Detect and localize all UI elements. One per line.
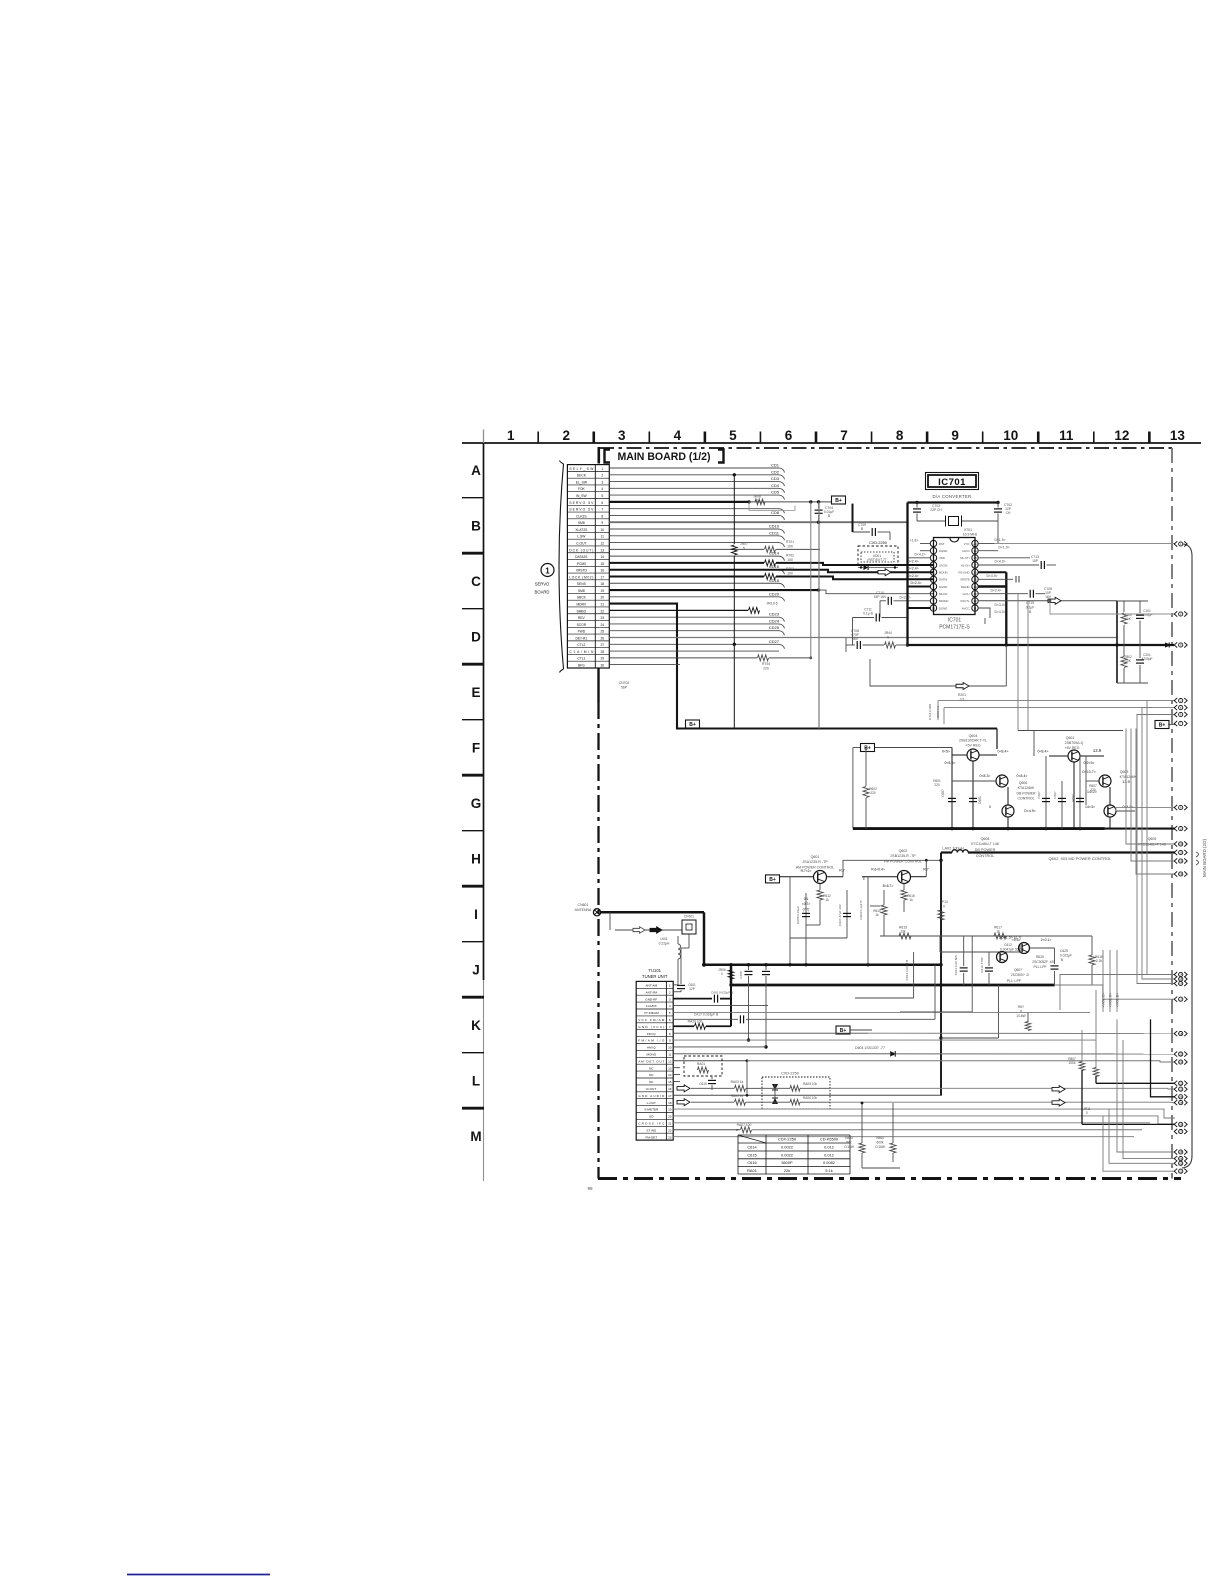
right connector bracket (1182, 544, 1192, 1168)
svg-text:D<2.4>: D<2.4> (907, 574, 918, 578)
svg-text:BFG: BFG (578, 664, 585, 668)
svg-text:2SC3052F -69: 2SC3052F -69 (1032, 960, 1054, 964)
svg-text:1k: 1k (875, 913, 879, 917)
svg-text:ST.IND: ST.IND (646, 1128, 657, 1132)
svg-text:0.0082: 0.0082 (823, 1160, 835, 1165)
svg-text:1: 1 (669, 984, 671, 988)
svg-text:12: 12 (973, 599, 977, 603)
frame top tick gray (483, 430, 485, 444)
svg-text:DB POWER: DB POWER (1016, 792, 1036, 796)
svg-text:13: 13 (973, 592, 977, 596)
bold antenna wire (601, 911, 705, 914)
svg-text:30: 30 (600, 664, 604, 668)
capacitor C601 (680, 948, 682, 984)
svg-text:R704: R704 (762, 662, 770, 666)
svg-text:22k: 22k (784, 1168, 790, 1173)
svg-text:1/16W: 1/16W (1016, 1014, 1026, 1018)
GND audio row17 (673, 1094, 941, 1096)
svg-text:21: 21 (668, 1122, 672, 1126)
connector pin 12 (1174, 858, 1187, 863)
svg-text:SBCK: SBCK (577, 596, 587, 600)
svg-text:C611 0.22 50V: C611 0.22 50V (954, 954, 958, 975)
capacitor C704 (818, 502, 820, 509)
loop wire below IC (870, 659, 1006, 686)
IC701 pin 15 (972, 576, 978, 582)
wire pin12 elbow (1131, 729, 1175, 862)
connector pin 4 (1174, 698, 1187, 703)
svg-text:L: L (472, 1074, 480, 1089)
svg-text:Q605: Q605 (1148, 837, 1157, 841)
column tick 4|5 (704, 432, 707, 444)
svg-text:FM IQ: FM IQ (647, 1032, 656, 1036)
svg-text:14: 14 (668, 1073, 672, 1077)
svg-text:PCM1717E-S: PCM1717E-S (939, 625, 970, 631)
wire CN pin 25 to CD25 (609, 630, 779, 632)
tuner pin wires (673, 984, 678, 986)
svg-text:C.OUT: C.OUT (576, 541, 586, 545)
row tick J|K (462, 996, 484, 999)
svg-text:CD27: CD27 (769, 639, 780, 644)
svg-text:JR07: JR07 (740, 542, 748, 546)
svg-text:6: 6 (785, 428, 793, 443)
svg-text:R201: R201 (958, 693, 966, 697)
svg-text:3: 3 (601, 480, 603, 484)
svg-text:8: 8 (601, 514, 603, 518)
svg-text:11: 11 (601, 535, 605, 539)
IC701 right pin wires (978, 543, 994, 545)
wire CN pin 13 DCK (609, 548, 764, 550)
svg-text:21: 21 (600, 603, 604, 607)
svg-text:BOARD: BOARD (535, 590, 550, 595)
svg-text:B<8.7>: B<8.7> (883, 884, 894, 888)
column tick 1|2 (537, 432, 539, 444)
main board 2/2 pointer (1196, 852, 1199, 865)
svg-text:LOCK (M02): LOCK (M02) (569, 575, 593, 579)
svg-text:CD3: CD3 (771, 476, 780, 481)
svg-text:220: 220 (934, 783, 940, 787)
svg-text:R-OUT: R-OUT (646, 1087, 656, 1091)
svg-text:JR44: JR44 (884, 631, 892, 635)
svg-text:16: 16 (600, 569, 604, 573)
column tick 7|8 (871, 432, 873, 444)
bold vertical x941 (940, 853, 942, 1096)
circled ref 1 (541, 564, 554, 577)
svg-text:5: 5 (601, 494, 603, 498)
resistor R615 (899, 933, 911, 939)
svg-text:CD20: CD20 (769, 591, 780, 596)
wire pin13 elbow (1136, 729, 1175, 875)
JR06 on bold vertical (730, 985, 732, 1026)
svg-text:L-OUT: L-OUT (647, 1101, 656, 1105)
svg-text:17: 17 (668, 1094, 672, 1098)
CROSS row21 (673, 1122, 1150, 1124)
svg-text:VT FM/AM: VT FM/AM (644, 1011, 659, 1015)
RC cluster right of IC (1116, 601, 1118, 683)
vertical net x734 (733, 475, 735, 544)
svg-text:RA03 1k: RA03 1k (731, 1080, 744, 1084)
IC701 pin 12 (972, 598, 978, 604)
svg-text:<1.8>: <1.8> (910, 539, 919, 543)
svg-text:JP14: JP14 (940, 900, 948, 904)
B+ J row (836, 1026, 850, 1034)
svg-text:12: 12 (600, 541, 604, 545)
transistor PLL Q1 (997, 952, 1008, 963)
B+ supply row6 (832, 496, 846, 504)
svg-text:FOK: FOK (578, 487, 586, 491)
svg-text:CH: CH (1006, 511, 1011, 515)
column tick 12|13 (1148, 432, 1151, 444)
board border left corner stub (597, 447, 600, 464)
svg-text:SCOR: SCOR (577, 623, 587, 627)
svg-text:D<1.9>: D<1.9> (998, 546, 1009, 550)
svg-text:G: G (471, 796, 482, 811)
wire CN pin 2 to CD2 (609, 474, 779, 476)
svg-text:S-METER: S-METER (644, 1108, 659, 1112)
svg-text:11: 11 (973, 606, 976, 610)
svg-text:19: 19 (668, 1108, 672, 1112)
svg-text:REV: REV (578, 616, 586, 620)
svg-text:C615: C615 (747, 1153, 756, 1158)
svg-text:2: 2 (563, 428, 571, 443)
svg-text:0.1: 0.1 (804, 897, 809, 901)
connector pin 18 (1174, 1031, 1187, 1036)
svg-text:SELF_SW: SELF_SW (569, 467, 594, 471)
svg-text:Q601: Q601 (1066, 736, 1075, 740)
svg-text:D601: D601 (978, 796, 982, 804)
audio wires to right (830, 1087, 1168, 1089)
wire CN pin 16 to CD16 (609, 569, 779, 571)
IC701 pin10 DGND bold stub (908, 607, 931, 609)
svg-text:DCK (OUT): DCK (OUT) (569, 548, 593, 552)
wire CN pin 14 to CD14 (609, 555, 779, 557)
svg-text:11: 11 (668, 1053, 671, 1057)
wire CN pin 5 to CD5 (609, 494, 779, 496)
svg-text:LRCIN: LRCIN (939, 563, 947, 567)
R864 network (892, 1103, 894, 1143)
R-OUT row16 (677, 1085, 690, 1092)
row tick H|I (462, 885, 484, 888)
svg-text:C602 0.022μF B: C602 0.022μF B (711, 991, 733, 995)
svg-text:20: 20 (973, 542, 977, 546)
svg-text:2SA1235-R -TP: 2SA1235-R -TP (802, 860, 828, 864)
svg-text:MAIN BOARD (1/2): MAIN BOARD (1/2) (618, 451, 711, 463)
diode D701 (863, 565, 868, 570)
net pins 6 and 15b (1137, 715, 1175, 984)
svg-text:(7.7): (7.7) (803, 908, 810, 912)
svg-text:Q606: Q606 (1019, 781, 1028, 785)
IC701 pin 6 (930, 576, 936, 582)
crystal X701 (917, 520, 946, 522)
svg-text:5.1k: 5.1k (825, 1168, 832, 1173)
svg-text:+6V REG: +6V REG (1065, 746, 1080, 750)
svg-text:D<1.9>: D<1.9> (994, 538, 1005, 542)
svg-text:XRSTB: XRSTB (960, 578, 969, 582)
svg-text:2SB709A-Q: 2SB709A-Q (1065, 741, 1084, 745)
connector pin 29 (1174, 1156, 1187, 1161)
IC701 pin 2 (930, 547, 936, 553)
connector pin 10 (1174, 841, 1187, 846)
svg-text:CXD-2250: CXD-2250 (869, 541, 887, 545)
svg-text:CLK2S: CLK2S (576, 514, 587, 518)
svg-text:SERVO: SERVO (535, 582, 550, 587)
svg-text:15: 15 (600, 562, 604, 566)
svg-text:10P: 10P (1032, 559, 1039, 563)
svg-text:R703: R703 (786, 567, 794, 571)
svg-text:CDX-2250: CDX-2250 (778, 1137, 797, 1142)
wire pin16 from PLL bus (1055, 985, 1176, 999)
svg-text:D604 1SS133T -77: D604 1SS133T -77 (855, 1046, 885, 1050)
diodes D614 D616 (772, 1084, 778, 1090)
svg-text:DATIN: DATIN (939, 578, 947, 582)
IC701 pin 4 (930, 562, 936, 568)
wire CN pin 23 to CD23 (609, 616, 779, 618)
connector pin 17 (1174, 997, 1187, 1002)
svg-text:ML-XTI: ML-XTI (960, 556, 969, 560)
svg-text:D<2.4>: D<2.4> (990, 589, 1001, 593)
ceramic filter CF601 (682, 920, 696, 934)
capacitor C709 (853, 531, 871, 533)
wire CN pin 4 to CD4 (609, 487, 779, 489)
svg-text:22: 22 (600, 609, 604, 613)
svg-text:0<8.4>: 0<8.4> (998, 750, 1009, 754)
svg-text:FWD: FWD (578, 630, 586, 634)
wire CN pin 21 MDRV down to B+ rail (609, 604, 997, 729)
emitter drop Q604 (951, 748, 953, 829)
capacitor C601 (948, 797, 956, 799)
svg-text:XLAT2S: XLAT2S (575, 528, 588, 532)
IC701 pin 8 (930, 590, 936, 596)
svg-text:CD10: CD10 (769, 524, 780, 529)
svg-text:600k: 600k (877, 1141, 884, 1145)
svg-text:0: 0 (943, 905, 945, 909)
connector pin 13 (1174, 871, 1187, 876)
IC701 label box (926, 473, 979, 490)
svg-text:220: 220 (763, 667, 769, 671)
transistor Q606 (996, 775, 1008, 787)
collector drop Q601b (1073, 762, 1075, 829)
svg-text:M: M (470, 1129, 481, 1144)
capacitor C612 (940, 951, 1020, 953)
svg-text:C610 470P: C610 470P (980, 957, 984, 972)
column tick 5|6 (759, 432, 761, 444)
svg-text:56k: 56k (846, 1141, 852, 1145)
svg-text:ANTENNA: ANTENNA (575, 908, 592, 912)
svg-text:H: H (471, 852, 481, 867)
wire CN pin 15 PCM0 to IC701 LRCIN (609, 562, 764, 564)
svg-text:R701: R701 (786, 540, 794, 544)
svg-text:C/16W: C/16W (875, 1145, 885, 1149)
svg-text:C: C (471, 574, 481, 589)
svg-text:R60?: R60? (1071, 794, 1075, 802)
svg-text:DET-R1: DET-R1 (575, 636, 587, 640)
svg-text:25: 25 (600, 630, 604, 634)
svg-text:Q603: Q603 (1120, 770, 1129, 774)
IC701 pin 14 (972, 583, 978, 589)
FM-DET row23 (673, 1136, 1134, 1138)
wire CN pin 8 to CD8 (609, 514, 779, 516)
svg-text:XRSTD: XRSTD (576, 569, 588, 573)
svg-text:C604 47μF 16V: C604 47μF 16V (838, 903, 842, 926)
svg-text:13.9: 13.9 (1093, 748, 1102, 753)
wire pin8 (1116, 807, 1175, 809)
svg-text:DATA2S: DATA2S (575, 555, 588, 559)
svg-text:RA05 10k: RA05 10k (803, 1082, 817, 1086)
svg-text:18: 18 (600, 582, 604, 586)
svg-text:19: 19 (600, 589, 604, 593)
svg-text:R.6<0.4>: R.6<0.4> (871, 868, 885, 872)
svg-text:B+: B+ (835, 498, 842, 504)
svg-text:5: 5 (669, 1011, 671, 1015)
svg-text:IN_SW: IN_SW (576, 494, 587, 498)
wire CN pin 28 (609, 650, 779, 652)
svg-text:C605 0.01μF: C605 0.01μF (796, 906, 800, 924)
wire CN pin 11 to CD11 (609, 535, 779, 537)
svg-text:2SB1302AR T-TL: 2SB1302AR T-TL (959, 739, 987, 743)
row tick A|B (462, 497, 484, 499)
RA01 dashed box (673, 1060, 747, 1062)
capacitor CA17 row6 (673, 1018, 738, 1020)
IC701 bold ground loop (906, 503, 908, 646)
resistor JR08 (755, 499, 765, 505)
svg-text:18: 18 (973, 556, 977, 560)
transistor Q603 (1099, 775, 1111, 787)
svg-text:9: 9 (601, 521, 603, 525)
svg-text:PLL LPF: PLL LPF (1033, 965, 1046, 969)
bold power bus G (853, 827, 1105, 830)
svg-text:FM-DET: FM-DET (645, 1135, 657, 1139)
svg-text:B+: B+ (1159, 723, 1166, 729)
R843 network (861, 1103, 863, 1143)
svg-text:CONTROL: CONTROL (976, 854, 995, 858)
svg-text:17: 17 (973, 563, 977, 567)
svg-text:4: 4 (669, 1004, 671, 1008)
svg-text:CN601: CN601 (578, 903, 589, 907)
wire CN pin 18 to CD18 (609, 582, 779, 584)
svg-text:KTA1266K: KTA1266K (1018, 786, 1035, 790)
svg-text:CD4: CD4 (771, 483, 780, 488)
resistor R617 (994, 933, 1006, 939)
connector pin 21 (1174, 1059, 1187, 1064)
svg-text:CN702: CN702 (619, 681, 630, 685)
svg-text:R.7<2>: R.7<2> (801, 869, 812, 873)
svg-text:D<4.9>: D<4.9> (994, 560, 1005, 564)
IC701 pin 18 (972, 555, 978, 561)
svg-text:I: I (474, 907, 478, 922)
svg-text:HL-GH: HL-GH (961, 563, 970, 567)
cluster verticals (867, 877, 869, 965)
svg-text:NC: NC (649, 1080, 654, 1084)
svg-text:0: 0 (721, 972, 723, 976)
svg-text:2: 2 (601, 474, 603, 478)
IC701 AVCC wire (978, 608, 990, 618)
net JR11 to pin 22 (1095, 990, 1097, 1068)
frame top ruler line (462, 442, 1201, 444)
wire pin24 from CA17 row (1151, 1019, 1176, 1096)
svg-text:0<8.3>: 0<8.3> (980, 774, 991, 778)
svg-text:ML/CK: ML/CK (939, 592, 948, 596)
svg-text:5: 5 (743, 547, 745, 551)
wire pin21 AM-DET (747, 1061, 1175, 1062)
svg-text:1.5<1.5> (2.7): 1.5<1.5> (2.7) (999, 936, 1022, 940)
bold rail y964.7 (704, 963, 941, 966)
connector pin 22 (1174, 1081, 1187, 1086)
column tick 11|12 (1093, 432, 1095, 444)
connector pin 1 (1174, 541, 1187, 546)
svg-text:NC: NC (649, 1066, 654, 1070)
svg-text:3: 3 (618, 428, 626, 443)
caps between rails (748, 965, 750, 970)
svg-text:C1A/MIN: C1A/MIN (569, 650, 594, 654)
svg-text:+5V REG: +5V REG (965, 744, 980, 748)
svg-text:J: J (472, 963, 480, 978)
svg-text:C619: C619 (699, 1082, 707, 1086)
svg-text:16.9 MHz: 16.9 MHz (963, 533, 978, 537)
arrows J row (1052, 1086, 1065, 1093)
svg-text:GND AUDIO: GND AUDIO (638, 1094, 665, 1098)
svg-text:0<5.6>: 0<5.6> (945, 761, 956, 765)
svg-text:0.012: 0.012 (824, 1153, 834, 1158)
wire CN pin 7 (609, 508, 779, 510)
svg-text:C612: C612 (1004, 943, 1012, 947)
svg-text:FM/AM I/O: FM/AM I/O (638, 1039, 665, 1043)
svg-text:G/CU: G/CU (963, 592, 970, 596)
connector pin 9 (1174, 826, 1187, 831)
svg-text:18: 18 (668, 1101, 672, 1105)
connector pin 31 (1174, 1169, 1187, 1174)
row tick E|F (462, 719, 484, 721)
connector pin 15 (1174, 976, 1187, 981)
svg-text:SENS: SENS (577, 582, 587, 586)
svg-text:Q60?: Q60? (1014, 968, 1022, 972)
svg-text:TUNER UNIT: TUNER UNIT (642, 974, 668, 979)
svg-text:VYO: VYO (964, 542, 971, 546)
IC701 pin 11 (972, 605, 978, 611)
CXD-2250 dashed option box (858, 546, 898, 565)
svg-text:<0.7>: <0.7> (802, 902, 811, 906)
wire pin18 FM IQ (868, 1032, 1175, 1034)
net pin 29 (1123, 1040, 1175, 1159)
capacitor C625 (1054, 948, 1056, 964)
svg-text:R702: R702 (786, 554, 794, 558)
row tick G|H (462, 830, 484, 832)
svg-text:0.0022: 0.0022 (781, 1153, 793, 1158)
svg-text:20: 20 (668, 1115, 672, 1119)
wire CN pin 16 XRSTD to IC701 BCKIN (609, 570, 933, 573)
net pin 30 from S-METER (1109, 1109, 1175, 1163)
svg-text:CTL2: CTL2 (577, 643, 585, 647)
svg-text:15P 16V: 15P 16V (874, 595, 887, 599)
svg-text:Q602: Q602 (899, 849, 908, 853)
diode D601 (969, 797, 977, 799)
net <VOL.B> (1116, 950, 1118, 1012)
IC701 pin 13 (972, 590, 978, 596)
arrow on BCKIN wire (878, 569, 891, 576)
capacitor C713 (978, 564, 1039, 566)
bold rail y985 (731, 984, 1055, 987)
tuner unit block (636, 981, 673, 1140)
svg-text:16V: 16V (852, 637, 859, 641)
svg-text:9: 9 (951, 428, 959, 443)
capacitor C711 (853, 617, 875, 619)
svg-text:DGND: DGND (939, 606, 947, 610)
title bracket left (605, 450, 611, 463)
svg-text:CONTROL: CONTROL (1017, 797, 1034, 801)
vertical feed x1028 (1027, 601, 1029, 731)
svg-text:CA17 0.033μF B: CA17 0.033μF B (694, 1013, 719, 1017)
svg-text:C60?: C60? (1037, 791, 1041, 799)
svg-text:2: 2 (669, 990, 671, 994)
svg-text:C616: C616 (747, 1160, 756, 1165)
